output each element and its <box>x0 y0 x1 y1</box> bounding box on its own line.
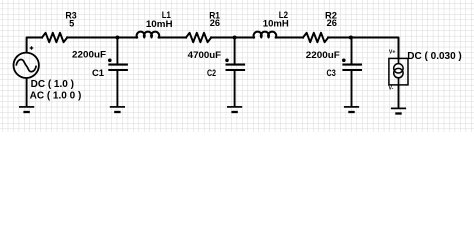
svg-text:AC ( 1.0 0 ): AC ( 1.0 0 ) <box>30 91 82 102</box>
svg-text:DC ( 1.0 ): DC ( 1.0 ) <box>31 79 74 90</box>
svg-text:V+: V+ <box>389 50 396 56</box>
svg-text:V-: V- <box>389 85 394 91</box>
svg-text:26: 26 <box>210 18 220 28</box>
svg-text:C2: C2 <box>207 68 216 78</box>
svg-text:DC ( 0.030 ): DC ( 0.030 ) <box>407 51 461 62</box>
svg-text:5: 5 <box>69 19 74 29</box>
svg-text:2200uF: 2200uF <box>306 50 340 60</box>
svg-text:C3: C3 <box>327 68 336 78</box>
svg-text:4700uF: 4700uF <box>188 50 222 60</box>
svg-text:2200uF: 2200uF <box>72 49 106 59</box>
svg-text:10mH: 10mH <box>146 19 173 29</box>
svg-text:C1: C1 <box>92 68 104 78</box>
svg-text:26: 26 <box>327 18 337 28</box>
svg-text:10mH: 10mH <box>263 19 289 29</box>
